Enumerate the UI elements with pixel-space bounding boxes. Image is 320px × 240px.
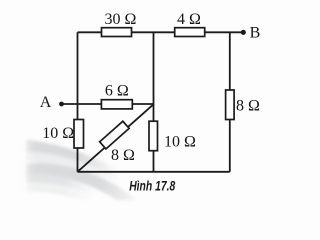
svg-text:8 Ω: 8 Ω (236, 98, 260, 115)
svg-text:6 Ω: 6 Ω (105, 83, 129, 100)
svg-text:B: B (250, 25, 261, 42)
svg-text:10 Ω: 10 Ω (164, 134, 196, 151)
svg-text:8 Ω: 8 Ω (111, 147, 135, 164)
svg-text:Hình 17.8: Hình 17.8 (129, 178, 175, 194)
svg-text:30 Ω: 30 Ω (105, 11, 137, 28)
svg-text:4 Ω: 4 Ω (177, 11, 201, 28)
svg-text:10 Ω: 10 Ω (42, 125, 74, 142)
svg-text:A: A (40, 94, 52, 111)
